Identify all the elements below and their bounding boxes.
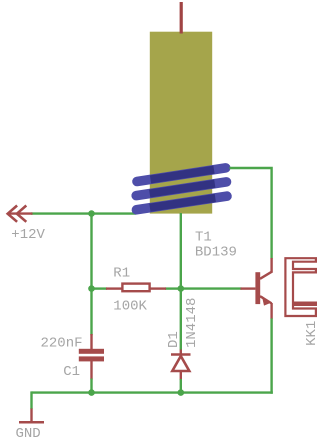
coil winding turn 3 bbox=[136, 196, 227, 210]
wire D1 bottom bbox=[180, 379, 182, 393]
wire ground rail bbox=[32, 391, 273, 393]
node base junction bbox=[178, 285, 185, 292]
svg-text:KK1: KK1 bbox=[304, 321, 319, 346]
svg-text:D1: D1 bbox=[166, 331, 182, 348]
wire R1 row left bbox=[92, 287, 108, 289]
ground GND bbox=[19, 409, 44, 423]
node +12V junction bbox=[88, 210, 95, 217]
svg-text:100K: 100K bbox=[113, 298, 147, 314]
capacitor C1 bbox=[79, 334, 104, 380]
wire +12V rail bbox=[31, 212, 136, 214]
svg-text:GND: GND bbox=[16, 426, 41, 442]
transistor T1 bbox=[241, 258, 272, 319]
wire base horizontal bbox=[181, 287, 242, 289]
wire C1 bottom bbox=[90, 379, 92, 393]
wire center tap down bbox=[180, 213, 182, 350]
svg-text:T1: T1 bbox=[195, 229, 212, 245]
core top lead bbox=[180, 2, 183, 34]
supply arrow +12V bbox=[8, 206, 33, 222]
svg-text:C1: C1 bbox=[63, 364, 80, 380]
wire R1 row right bbox=[165, 287, 181, 289]
wire +12V vertical branch bbox=[90, 212, 92, 335]
node C1 rail junction bbox=[88, 389, 95, 396]
svg-text:+12V: +12V bbox=[11, 227, 45, 243]
resistor R1 bbox=[106, 284, 166, 292]
core L1 (ferrite rod) bbox=[150, 32, 212, 214]
diode D1 bbox=[171, 350, 191, 380]
svg-text:R1: R1 bbox=[113, 266, 130, 282]
svg-text:1N4148: 1N4148 bbox=[184, 298, 200, 348]
svg-text:BD139: BD139 bbox=[195, 245, 237, 261]
wire coil top to collector bbox=[230, 168, 272, 259]
coil winding turn 2 bbox=[136, 182, 226, 196]
node D1 rail junction bbox=[178, 389, 185, 396]
node R1 left junction bbox=[88, 285, 95, 292]
svg-text:220nF: 220nF bbox=[41, 335, 83, 351]
wire emitter down bbox=[270, 318, 272, 393]
wire GND drop bbox=[30, 391, 32, 409]
coil winding turn 1 bbox=[137, 168, 226, 182]
heatsink KK1 bbox=[285, 258, 316, 316]
